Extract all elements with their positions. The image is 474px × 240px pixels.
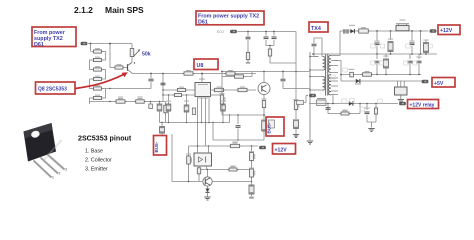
- svg-text:1. Base: 1. Base: [85, 149, 103, 155]
- svg-text:2SC5353 pinout: 2SC5353 pinout: [78, 135, 132, 143]
- svg-text:3: 3: [65, 168, 67, 172]
- svg-text:Q8 2SC5353: Q8 2SC5353: [38, 87, 67, 93]
- svg-text:U8: U8: [197, 63, 204, 69]
- svg-text:BU5-: BU5-: [154, 141, 159, 152]
- svg-text:TX4: TX4: [311, 26, 321, 32]
- svg-text:2.1.2: 2.1.2: [74, 5, 93, 15]
- svg-text:BU5-: BU5-: [267, 122, 272, 133]
- svg-text:3. Emitter: 3. Emitter: [85, 167, 108, 173]
- svg-text:ECO: ECO: [217, 30, 224, 34]
- svg-text:2. Collector: 2. Collector: [85, 158, 112, 164]
- svg-text:1: 1: [52, 176, 54, 180]
- svg-text:+12V relay: +12V relay: [410, 103, 435, 109]
- svg-text:+5V: +5V: [434, 81, 444, 87]
- svg-text:D61: D61: [34, 42, 44, 48]
- svg-text:D61: D61: [198, 20, 208, 26]
- svg-text:50k: 50k: [142, 52, 151, 58]
- svg-text:+12V: +12V: [440, 28, 453, 34]
- svg-text:Main SPS: Main SPS: [105, 5, 144, 15]
- svg-text:2: 2: [59, 172, 61, 176]
- svg-text:+12V: +12V: [275, 148, 288, 154]
